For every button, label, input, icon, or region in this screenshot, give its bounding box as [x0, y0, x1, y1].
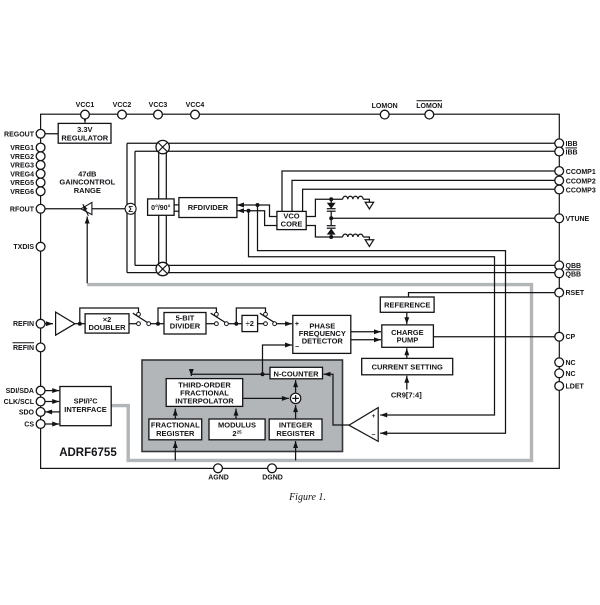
svg-text:NC: NC — [566, 360, 576, 367]
svg-text:IBB: IBB — [566, 150, 578, 157]
svg-text:SPI/I2C: SPI/I2C — [74, 396, 98, 405]
svg-text:0°/90°: 0°/90° — [151, 204, 170, 212]
svg-text:LOMON: LOMON — [372, 103, 398, 110]
svg-text:DGND: DGND — [262, 474, 283, 481]
svg-text:VREG5: VREG5 — [10, 180, 34, 187]
svg-text:CP: CP — [566, 334, 576, 341]
svg-text:AGND: AGND — [208, 474, 229, 481]
svg-text:RANGE: RANGE — [74, 186, 101, 195]
svg-text:QBB: QBB — [566, 271, 582, 278]
svg-text:REFIN: REFIN — [13, 321, 34, 328]
svg-text:CURRENT SETTING: CURRENT SETTING — [372, 362, 443, 371]
svg-text:RFOUT: RFOUT — [10, 206, 35, 213]
svg-text:VREG2: VREG2 — [10, 154, 34, 161]
svg-text:−: − — [295, 344, 299, 351]
svg-text:QBB: QBB — [566, 263, 582, 270]
svg-text:+: + — [372, 413, 376, 420]
svg-text:REGULATOR: REGULATOR — [61, 134, 108, 143]
svg-text:DETECTOR: DETECTOR — [302, 336, 344, 345]
svg-text:DIVIDER: DIVIDER — [170, 322, 201, 331]
svg-text:CCOMP1: CCOMP1 — [566, 169, 596, 176]
svg-text:SDI/SDA: SDI/SDA — [6, 388, 34, 395]
svg-text:VCC3: VCC3 — [149, 102, 168, 109]
svg-text:VREG3: VREG3 — [10, 163, 34, 170]
svg-text:NC: NC — [566, 371, 576, 378]
svg-text:SDO: SDO — [19, 409, 35, 416]
svg-text:RSET: RSET — [566, 290, 585, 297]
svg-text:INTERPOLATOR: INTERPOLATOR — [175, 397, 234, 406]
svg-text:CLK/SCL: CLK/SCL — [4, 399, 35, 406]
svg-text:REGOUT: REGOUT — [4, 131, 35, 138]
svg-text:CS: CS — [24, 422, 34, 429]
svg-text:ADRF6755: ADRF6755 — [59, 447, 117, 459]
svg-text:VCC2: VCC2 — [113, 102, 132, 109]
svg-text:REGISTER: REGISTER — [156, 429, 195, 438]
svg-text:INTERFACE: INTERFACE — [64, 405, 107, 414]
svg-text:IBB: IBB — [566, 141, 578, 148]
svg-text:CCOMP3: CCOMP3 — [566, 187, 596, 194]
svg-text:TXDIS: TXDIS — [13, 244, 34, 251]
svg-text:LDET: LDET — [566, 384, 585, 391]
svg-text:VCC1: VCC1 — [76, 102, 95, 109]
svg-text:+: + — [295, 321, 299, 328]
svg-text:VREG1: VREG1 — [10, 145, 34, 152]
svg-text:CORE: CORE — [281, 219, 303, 228]
svg-text:RFDIVIDER: RFDIVIDER — [188, 203, 229, 212]
svg-text:VTUNE: VTUNE — [566, 216, 590, 223]
svg-text:DOUBLER: DOUBLER — [88, 323, 126, 332]
svg-text:VCC4: VCC4 — [186, 102, 205, 109]
svg-text:REGISTER: REGISTER — [276, 429, 315, 438]
svg-text:Σ: Σ — [128, 205, 133, 214]
svg-text:VREG4: VREG4 — [10, 171, 34, 178]
svg-text:Figure 1.: Figure 1. — [288, 492, 326, 503]
svg-text:LOMON: LOMON — [416, 103, 442, 110]
svg-text:REFERENCE: REFERENCE — [384, 300, 430, 309]
svg-text:MODULUS: MODULUS — [218, 420, 256, 429]
svg-text:CR9[7:4]: CR9[7:4] — [391, 391, 422, 400]
svg-text:VREG6: VREG6 — [10, 189, 34, 196]
svg-text:N-COUNTER: N-COUNTER — [274, 369, 320, 378]
svg-text:PUMP: PUMP — [397, 336, 419, 345]
svg-text:REFIN: REFIN — [13, 345, 34, 352]
svg-text:CCOMP2: CCOMP2 — [566, 178, 596, 185]
svg-text:−: − — [372, 431, 376, 438]
svg-text:÷2: ÷2 — [246, 319, 254, 328]
